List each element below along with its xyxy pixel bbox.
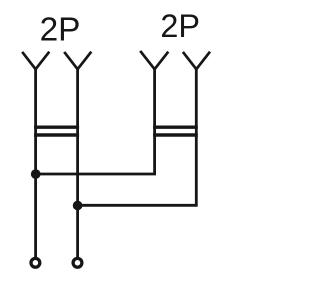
node A junction dot	[31, 169, 41, 179]
contact Y3 (socket contact, pole 3)	[140, 51, 168, 69]
wire: pole 4 vertical conductor with elbow to node B	[77, 67, 196, 205]
mechanical linkage bar (right pair, lower line)	[153, 133, 198, 136]
mechanical linkage bar (left pair, lower line)	[34, 133, 79, 136]
contact Y2 (socket contact, pole 2)	[64, 52, 91, 69]
terminal T1 (open circle)	[31, 258, 40, 267]
mechanical linkage bar (right pair, upper line)	[153, 125, 198, 128]
contact Y4 (socket contact, pole 4)	[183, 52, 210, 69]
svg-text:2P: 2P	[160, 8, 200, 44]
wire: pole 2 vertical conductor	[76, 67, 79, 258]
wire: pole 1 vertical conductor	[34, 67, 37, 258]
mechanical linkage bar (left pair, upper line)	[34, 125, 79, 128]
terminal T2 (open circle)	[73, 258, 82, 267]
wire: pole 3 vertical conductor with elbow to node A	[35, 67, 155, 174]
svg-text:2P: 2P	[40, 11, 81, 48]
contact Y1 (socket contact, pole 1)	[22, 52, 49, 69]
node B junction dot	[73, 201, 83, 211]
